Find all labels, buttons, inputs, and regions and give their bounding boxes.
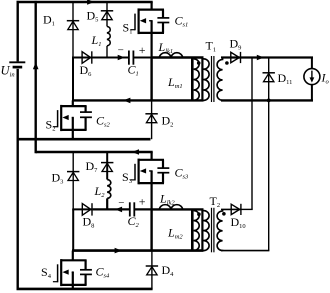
inductor Lm1 winding [192, 58, 199, 101]
current source Io [304, 69, 320, 85]
wire D6 to C1 [92, 57, 128, 59]
wire secondary bottom rail [221, 99, 313, 101]
wire S1 source down [151, 33, 153, 59]
inductor L2 [107, 180, 111, 199]
capacitor Cs3 [157, 160, 169, 183]
wire T2 primary left edge [150, 209, 152, 250]
wire D11 branch top [268, 58, 270, 101]
voltage source Uin [9, 62, 25, 67]
wire D3 node to D8 [72, 208, 92, 210]
diode D6 [82, 51, 92, 63]
wire D1 branch [72, 2, 74, 58]
current direction arrow [132, 149, 139, 155]
wire left input rail [17, 1, 19, 62]
inductor Lm2 winding [192, 209, 199, 250]
wire C2 to junction [134, 208, 152, 210]
transformer T2 secondary winding [217, 209, 223, 250]
wire C1 to junction [133, 57, 152, 59]
T1 core [212, 56, 214, 102]
diode D5 [101, 11, 113, 20]
svg-text:+: + [139, 195, 146, 209]
wire S4 source down [72, 285, 74, 289]
node T2 primary dot [197, 212, 201, 216]
wire L2 to node [106, 198, 108, 210]
wire D2 branch top [151, 100, 153, 139]
diode D3 [67, 172, 79, 181]
wire S3 source down [151, 183, 153, 210]
wire T1 primary top [152, 56, 204, 58]
wire top rail [17, 1, 153, 3]
T2 core [212, 208, 214, 253]
wire D5 stub [106, 2, 108, 26]
wire output right edge top [311, 58, 313, 69]
capacitor Cs1 [157, 10, 169, 33]
wire T2 primary bottom / S4 drain wire [72, 249, 204, 252]
current direction arrow [123, 98, 130, 104]
wire output right edge bottom [311, 85, 313, 102]
wire D1-node down to primary bottom [72, 58, 74, 101]
transformer T1 secondary winding [217, 58, 223, 101]
wire battery negative rail [17, 69, 19, 290]
wire S1 drain to top rail [151, 2, 153, 10]
current direction arrow [33, 62, 39, 69]
diode D11 [263, 73, 275, 82]
transistor S4 [53, 259, 87, 286]
current direction arrow [115, 248, 122, 254]
svg-text:+: + [139, 43, 146, 57]
wire S4 drain up [72, 251, 74, 261]
wire D8 to C2 [93, 208, 130, 210]
wire T1 primary left edge [150, 58, 152, 101]
wire D3-node down to T2 primary bottom [72, 209, 74, 250]
diode D8 [82, 203, 92, 215]
wire D7 stub [106, 152, 108, 180]
transistor S2 [53, 105, 87, 131]
current direction arrow [257, 55, 264, 61]
wire S2 source down [72, 130, 74, 139]
wire T2 secondary top [221, 208, 241, 210]
wire T1 primary bottom / S2 drain wire [72, 99, 204, 101]
wire lower cell top rail [36, 151, 153, 153]
transformer T2 primary winding [202, 209, 209, 250]
transistor S3 [130, 159, 164, 185]
wire second input rail [35, 1, 37, 153]
transformer T1 primary winding [202, 58, 209, 101]
diode D7 [101, 163, 113, 172]
wire S2 drain up [72, 100, 74, 106]
inductor Llk2 [159, 205, 182, 210]
capacitor Cs4 [80, 260, 92, 285]
wire D4 branch top [151, 251, 153, 289]
node T1 primary dot [197, 61, 201, 65]
wire T2 secondary bottom [221, 250, 269, 252]
transistor S1 [130, 8, 164, 34]
wire D10 to cross link [241, 208, 252, 210]
capacitor C2 [130, 202, 135, 216]
capacitor Cs2 [80, 106, 92, 130]
capacitor C1 [129, 51, 134, 65]
wire D3 branch top [72, 152, 74, 209]
diode D9 [231, 52, 241, 63]
diode D2 [145, 114, 157, 123]
node T1 secondary dot [225, 61, 229, 65]
wire D9 to output corner [241, 56, 313, 58]
svg-text:−: − [118, 44, 124, 56]
current direction arrow [87, 0, 94, 5]
node T2 secondary dot [222, 212, 226, 216]
inductor Llk1 [159, 53, 182, 58]
wire bottom rail [17, 288, 153, 291]
wire D1 node to D6 [72, 57, 92, 59]
wire S2 source return rail [17, 138, 151, 141]
diode D1 [67, 21, 79, 30]
wire L1 to node [106, 46, 108, 59]
wire cross link output to T2 bottom [268, 100, 270, 250]
node junction dot [267, 99, 271, 103]
current direction arrow [118, 55, 125, 61]
diode D10 [231, 204, 241, 215]
inductor L1 [107, 26, 110, 46]
wire cross link D9-D10 [251, 58, 253, 210]
wire T2 primary top [152, 208, 204, 210]
current direction arrow [115, 207, 122, 213]
diode D4 [146, 266, 158, 275]
wire S3 drain to lower rail [151, 152, 153, 160]
svg-text:−: − [118, 197, 124, 209]
wire T1 secondary top [221, 56, 241, 58]
